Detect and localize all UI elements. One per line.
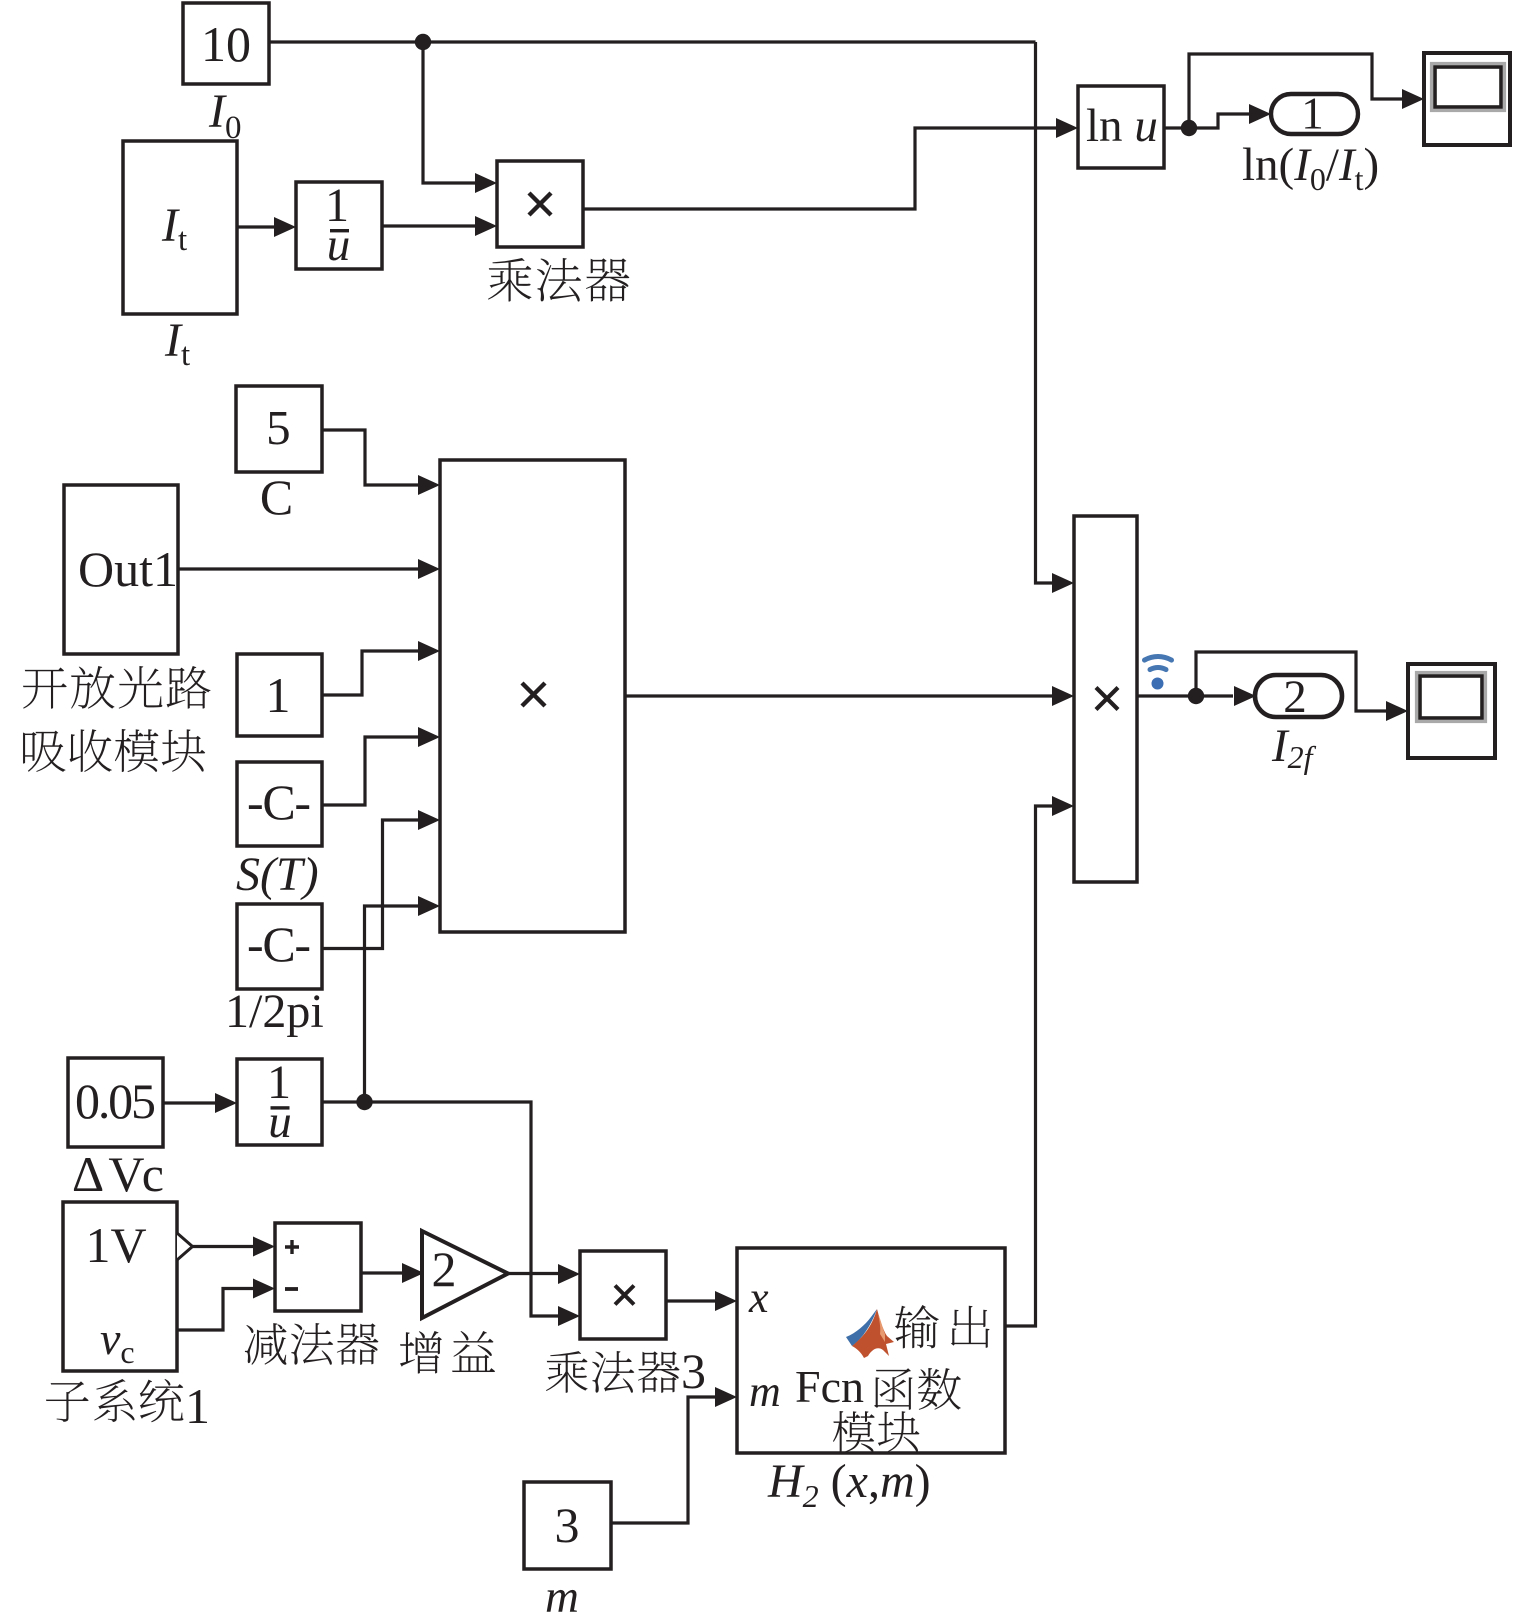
wire branch from node C down to multiplier 3 input 2 xyxy=(365,1102,559,1316)
arrowhead into ln u xyxy=(1056,118,1078,138)
wire multiplier output to ln u input xyxy=(583,128,1056,209)
svg-text:10: 10 xyxy=(201,16,251,72)
label zixitong 1 (subsystem 1) xyxy=(46,1379,183,1422)
arrowhead into big product input 6 xyxy=(418,896,440,916)
constant block 3 xyxy=(524,1482,611,1569)
wire vertical from node A down to tall product input 1 xyxy=(1036,42,1053,583)
wire gain output to multiplier 3 input 1 xyxy=(508,1272,558,1275)
arrowhead into reciprocal 1 xyxy=(274,217,296,237)
junction node D xyxy=(1188,688,1204,704)
scope block 2 xyxy=(1408,664,1495,758)
arrowhead into big product input 5 xyxy=(418,810,440,830)
reciprocal block 1/u xyxy=(296,182,382,269)
wire subsystem output 1 to sum + input xyxy=(193,1245,254,1248)
svg-text:-C-: -C- xyxy=(247,916,311,972)
arrowhead into big product input 3 xyxy=(418,641,440,661)
svg-text:3: 3 xyxy=(555,1497,580,1553)
arrowhead into sum + input xyxy=(253,1237,275,1257)
svg-text:H2 (x,m): H2 (x,m) xyxy=(767,1455,931,1514)
constant block 1 xyxy=(237,654,322,736)
svg-text:-C-: -C- xyxy=(247,774,311,830)
scope block 1 xyxy=(1424,53,1510,145)
arrowhead into multiplier 3 input 1 xyxy=(558,1264,580,1284)
inport block Out1 xyxy=(64,485,178,654)
svg-text:m: m xyxy=(545,1571,579,1619)
svg-text:C: C xyxy=(260,469,293,525)
subsystem block 1V vc xyxy=(63,1202,177,1371)
outport oval 2 xyxy=(1255,675,1342,717)
wire multiplier 3 output to Fcn x input xyxy=(666,1299,715,1302)
arrowhead into scope 2 xyxy=(1386,701,1408,721)
svg-text:1/2pi: 1/2pi xyxy=(225,985,324,1038)
arrowhead into scope 1 xyxy=(1402,89,1424,109)
svg-text:S(T): S(T) xyxy=(236,848,319,901)
arrowhead into outport 1 xyxy=(1249,104,1271,124)
svg-text:0.05: 0.05 xyxy=(75,1073,156,1129)
svg-text:3: 3 xyxy=(681,1343,706,1399)
label shuchu (output) xyxy=(895,1305,990,1348)
wire constant 5 to big product input 1 xyxy=(322,430,418,485)
plus sign xyxy=(285,1240,299,1254)
wire It output to reciprocal input xyxy=(237,225,274,228)
product block multiplier 3 xyxy=(580,1251,666,1339)
svg-text:Fcn: Fcn xyxy=(795,1361,864,1412)
wire Fcn output up to tall product input 3 xyxy=(1005,806,1052,1326)
arrowhead into Fcn m input xyxy=(715,1387,737,1407)
svg-text:u: u xyxy=(327,219,351,271)
svg-text:ln u: ln u xyxy=(1086,100,1158,152)
wire reciprocal 2 output to node C, up to big product input 6 xyxy=(322,906,418,1102)
arrowhead into tall product input 3 xyxy=(1052,796,1074,816)
svg-text:Δ Vc: Δ Vc xyxy=(72,1146,164,1202)
constant block -C- 1/2pi xyxy=(237,904,322,989)
minus sign xyxy=(285,1287,298,1291)
svg-text:1: 1 xyxy=(185,1378,210,1434)
wire constant 3 to Fcn m input xyxy=(611,1397,715,1523)
wire sum output to gain input xyxy=(361,1271,402,1274)
arrowhead into multiplier input 1 xyxy=(475,173,497,193)
wire branch from node B to scope 1 xyxy=(1189,54,1402,128)
gain block 2 xyxy=(422,1231,508,1318)
arrowhead into tall product input 2 xyxy=(1052,686,1074,706)
sum block subtract xyxy=(275,1223,361,1311)
outport oval 1 xyxy=(1271,94,1358,134)
svg-text:5: 5 xyxy=(266,400,291,455)
label jianfaqi (subtractor) xyxy=(245,1323,378,1365)
wireless logging badge xyxy=(1145,656,1172,669)
wire ln u output to outport 1 xyxy=(1164,114,1249,128)
wire big product output to tall product input 2 xyxy=(625,694,1052,697)
arrowhead into big product input 1 xyxy=(418,475,440,495)
wire reciprocal output to multiplier input 2 xyxy=(382,224,475,227)
wire 10 output to node A and down-line to right product input 1 xyxy=(269,40,1036,43)
svg-text:2: 2 xyxy=(1283,671,1307,723)
svg-text:Out1: Out1 xyxy=(78,541,178,597)
inport block It xyxy=(123,141,237,314)
arrowhead into outport 2 xyxy=(1234,686,1256,706)
svg-text:1: 1 xyxy=(1301,89,1324,139)
math function block ln u xyxy=(1078,86,1164,168)
arrowhead into gain xyxy=(402,1263,424,1283)
svg-text:u: u xyxy=(268,1096,292,1148)
subsystem output port chevron xyxy=(177,1233,193,1260)
label chengfaqi 3 xyxy=(546,1351,680,1393)
constant block 5 xyxy=(236,386,322,472)
arrowhead into tall product input 1 xyxy=(1052,573,1074,593)
constant block -C- S(T) xyxy=(237,762,322,846)
label chengfaqi (multiplier) xyxy=(488,258,629,302)
arrowhead into big product input 4 xyxy=(418,727,440,747)
wire constant 0.05 to reciprocal 2 input xyxy=(163,1101,215,1104)
arrowhead into Fcn x input xyxy=(715,1291,737,1311)
big product block xyxy=(440,460,625,932)
label zengyi (gain) xyxy=(400,1331,495,1374)
MATLAB logo xyxy=(846,1309,894,1358)
tall product block xyxy=(1074,516,1137,882)
constant block 10 xyxy=(183,3,269,84)
Fcn function block xyxy=(737,1248,1005,1453)
label kaifang guanglu line 1 xyxy=(23,666,211,709)
arrowhead into multiplier 3 input 2 xyxy=(558,1306,580,1326)
wire branch from node A down to multiplier input 1 xyxy=(423,42,475,183)
wire tall product output to node D and outport 2 xyxy=(1137,694,1233,697)
svg-text:2: 2 xyxy=(432,1241,457,1297)
svg-text:m: m xyxy=(749,1367,781,1416)
arrowhead into reciprocal 2 xyxy=(215,1093,237,1113)
svg-text:1V: 1V xyxy=(85,1217,146,1273)
label hanshu (function) xyxy=(874,1368,961,1410)
wire subsystem output 2 to sum - input xyxy=(177,1289,253,1331)
wire Out1 to big product input 2 xyxy=(178,567,418,570)
label mokuai (module) xyxy=(833,1411,919,1452)
wire constant 1 to big product input 3 xyxy=(322,651,418,695)
arrowhead into big product input 2 xyxy=(418,559,440,579)
label xishou mokuai line 2 xyxy=(23,729,205,772)
junction node B xyxy=(1181,120,1197,136)
arrowhead into multiplier input 2 xyxy=(475,216,497,236)
junction node A xyxy=(415,34,431,50)
svg-text:1: 1 xyxy=(266,667,291,723)
svg-text:x: x xyxy=(748,1273,769,1322)
wire constant S(T) to big product input 4 xyxy=(322,737,418,805)
constant block 0.05 xyxy=(68,1058,163,1147)
product block multiplier xyxy=(497,161,583,247)
wire branch from node D to scope 2 xyxy=(1196,652,1386,711)
arrowhead into sum - input xyxy=(253,1279,275,1299)
reciprocal block 2 1/u xyxy=(237,1059,322,1145)
junction node C xyxy=(356,1094,372,1110)
wire constant 1/2pi to big product input 5 xyxy=(322,820,418,949)
